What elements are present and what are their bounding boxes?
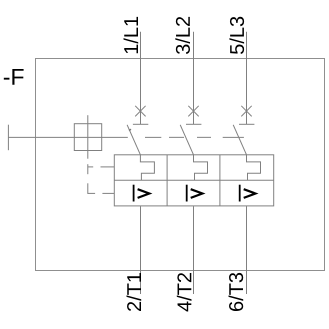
linkage dashes from actuator down to trip unit [88, 164, 115, 194]
thermal overload element pole 2 [194, 155, 208, 181]
magnetic trip symbol I> pole 1 [134, 185, 150, 202]
actuator vertical stem [87, 115, 89, 159]
fixed contact bar pole 3 [239, 123, 254, 125]
magnetic trip symbol I> pole 2 [187, 185, 203, 202]
magnetic trip symbol I> pole 3 [240, 185, 256, 202]
actuator end T-bar [7, 125, 9, 151]
wire top lead L2 [193, 32, 195, 125]
wire bottom lead T3 [246, 206, 248, 294]
breaker function cross pole 1 [135, 106, 145, 117]
terminal label 5/L3 [229, 17, 244, 54]
fixed contact bar pole 2 [186, 123, 201, 125]
breaker function cross pole 2 [188, 106, 198, 117]
breaker function cross pole 3 [241, 106, 251, 117]
terminal label 2/T1 [127, 273, 142, 311]
actuator square [74, 124, 101, 151]
wire top lead L1 [140, 32, 142, 125]
wire bottom lead T1 [140, 206, 142, 294]
fixed contact bar pole 1 [133, 123, 148, 125]
trip unit column divider 2 [219, 155, 221, 206]
trip unit box [114, 155, 273, 206]
wire top lead L3 [246, 32, 248, 125]
enclosure border [36, 59, 325, 271]
contact blade pole 3 [233, 125, 246, 155]
terminal label 3/L2 [175, 17, 190, 54]
manual actuator lever wire [8, 136, 127, 138]
contact blade pole 1 [127, 125, 140, 155]
label -F [4, 69, 24, 85]
terminal label 4/T2 [177, 273, 192, 312]
thermal overload element pole 3 [247, 155, 261, 181]
latch tick on blade pole 1 [129, 129, 131, 130]
trip unit row divider [114, 179, 273, 181]
thermal overload element pole 1 [140, 155, 154, 181]
wire bottom lead T2 [193, 206, 195, 294]
terminal label 6/T3 [229, 273, 244, 311]
contact blade pole 2 [180, 125, 193, 155]
trip unit column divider 1 [166, 155, 168, 206]
mechanical linkage dashes (horizontal, to pole blades) [145, 136, 244, 138]
terminal label 1/L1 [124, 17, 139, 53]
